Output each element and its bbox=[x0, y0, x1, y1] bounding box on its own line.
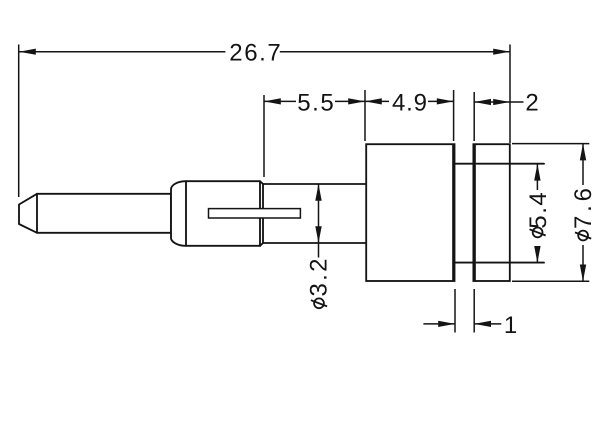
arrow ø5.4 up bbox=[534, 164, 540, 181]
arrow ø3.2 up bbox=[315, 184, 321, 201]
diameter symbol of ø3.2 bbox=[314, 298, 324, 308]
arrow 4.9 right bbox=[437, 98, 454, 104]
arrow ø5.4 down bbox=[534, 246, 540, 263]
dim 26.7 extension line left bbox=[18, 45, 20, 198]
arrow 5.5 right bbox=[348, 98, 365, 104]
arrow ø3.2 down bbox=[315, 226, 321, 243]
arrow ø7.6 up bbox=[580, 144, 586, 161]
dim 1 extension line left bbox=[454, 289, 456, 333]
svg-text:4.9: 4.9 bbox=[392, 89, 427, 116]
dim 2 extension line left bbox=[473, 92, 475, 141]
groove ø5.4 bbox=[455, 164, 473, 263]
rod ø3.2 section bbox=[263, 184, 366, 243]
pin tip bbox=[19, 194, 37, 233]
diameter symbol of ø5.4 bbox=[533, 228, 543, 238]
groove lines through flange / ø5.4 extension lines bbox=[476, 164, 544, 263]
flange inner edge bbox=[474, 145, 476, 281]
arrow 1 left (outside, pointing right) bbox=[438, 321, 455, 327]
dim 5.5/4.9 shared extension line bbox=[364, 90, 366, 141]
dim 1 extension line right bbox=[473, 289, 475, 333]
dim ø5.4 line bbox=[536, 164, 538, 263]
arrow 2 left bbox=[474, 99, 491, 105]
arrow 26.7 right bbox=[493, 49, 510, 55]
svg-text:3.2: 3.2 bbox=[306, 259, 333, 297]
arrow 2 right bbox=[493, 99, 510, 105]
collar right chamfer bbox=[260, 181, 263, 246]
pin body bbox=[37, 194, 171, 233]
svg-text:2: 2 bbox=[525, 89, 538, 116]
svg-text:5.4: 5.4 bbox=[525, 192, 552, 229]
dim ø7.6 line bbox=[582, 144, 584, 282]
slot bar bbox=[209, 209, 301, 218]
collar bbox=[171, 181, 260, 246]
arrow 1 right (outside, pointing left) bbox=[474, 321, 491, 327]
dim 26.7 line bbox=[19, 51, 510, 53]
arrow 4.9 left bbox=[365, 98, 382, 104]
dim 2 line with leader bbox=[474, 101, 523, 103]
dim 5.5 extension line left bbox=[263, 95, 265, 177]
arrow 26.7 left bbox=[19, 49, 36, 55]
dim 4.9 line bbox=[365, 100, 454, 102]
dim ø3.2 line bbox=[318, 184, 320, 258]
dim ø7.6 extension line top bbox=[512, 143, 589, 145]
collar tangent line bbox=[185, 181, 187, 246]
arrow 5.5 left bbox=[264, 98, 281, 104]
diameter symbol of ø7.6 bbox=[578, 231, 588, 241]
dim 1 line right tail bbox=[474, 323, 501, 325]
arrow ø7.6 down bbox=[580, 265, 586, 282]
dim 4.9 extension line right bbox=[453, 90, 455, 141]
svg-text:5.5: 5.5 bbox=[297, 89, 334, 116]
dim 1 line left tail bbox=[423, 323, 455, 325]
dim ø7.6 extension line bottom bbox=[512, 280, 589, 282]
svg-text:1: 1 bbox=[504, 312, 517, 339]
block right chamfer line bbox=[452, 145, 454, 281]
dim 26.7 extension line right bbox=[509, 45, 511, 144]
dim 5.5 line bbox=[264, 100, 365, 102]
svg-text:26.7: 26.7 bbox=[229, 39, 281, 66]
svg-text:7.6: 7.6 bbox=[570, 188, 597, 229]
flange bbox=[473, 144, 509, 281]
block ø7.6 body bbox=[366, 144, 454, 281]
